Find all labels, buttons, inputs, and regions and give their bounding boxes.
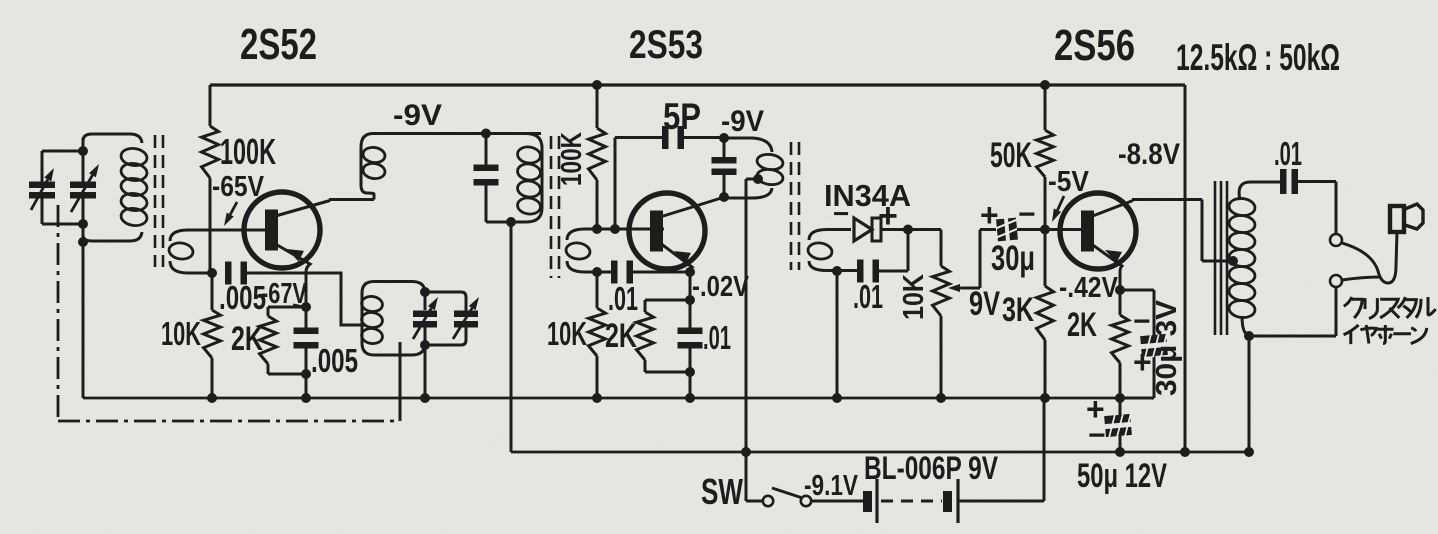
transformer T1 core (dashed) <box>155 135 163 267</box>
node: 2K bottom at emitter <box>685 367 695 377</box>
node: tank at ground bus <box>420 393 430 403</box>
arrow: VC1 adjustment arrow <box>31 168 54 210</box>
label katakana iyahoon (earphone) <box>1344 325 1427 344</box>
transformer T5 core <box>1215 181 1227 335</box>
wire: top bus left drop to R 100K <box>209 85 212 126</box>
wire: 100K bottom to base-coil bottom node <box>209 178 212 273</box>
svg-text:2K: 2K <box>231 320 263 358</box>
wire: Q3 emitter lead <box>1090 243 1122 290</box>
node: top bus junction to 2S53 bias <box>592 80 602 90</box>
svg-text:2S53: 2S53 <box>629 23 703 67</box>
wire: lower jack to T5 bottom <box>1335 287 1338 336</box>
wire: battery positive to ground bus <box>958 398 1044 501</box>
transistor Q3 2S56 <box>1060 193 1136 269</box>
node: T2 cap top junction <box>481 129 491 139</box>
coil T2 secondary (to Q2 stage supply) <box>486 134 542 223</box>
capacitor .005 (Q1 emitter bypass) <box>294 328 319 349</box>
node: top bus junction to 2S56 bias <box>1040 80 1050 90</box>
svg-text:2K: 2K <box>1067 306 1097 344</box>
wire: Q3 collector lead <box>1090 200 1233 262</box>
label -.42V <box>1059 272 1119 304</box>
wire: .01 to jack <box>1296 182 1336 235</box>
node: 3K at ground bus <box>1040 393 1050 403</box>
variable capacitor VC3 (regen) <box>413 311 437 328</box>
label .01 (detector) <box>853 278 883 315</box>
coil L2 tickler (loops) <box>361 282 425 356</box>
wire: 5P wire <box>615 136 724 139</box>
resistor R 2K (Q1 emitter) <box>260 316 277 364</box>
capacitor 30uF coupling (electrolytic) <box>995 218 1019 242</box>
capacitor (Q2 collector) <box>712 157 737 175</box>
wire: collector cap leads <box>723 138 726 197</box>
svg-text:.005: .005 <box>219 279 266 316</box>
node: VC1 rail bottom at L1 <box>78 219 88 229</box>
capacitor 30uF 3V (Q3 emitter bypass) <box>1140 333 1169 358</box>
wire: 30u 3V branch <box>1120 290 1154 398</box>
crystal earphone icon <box>1390 204 1423 232</box>
variable capacitor VC2 (main tuning) <box>70 182 96 199</box>
node: emitter network bottom <box>301 369 311 379</box>
shield enclosure (dash-dot) <box>58 205 397 421</box>
label 2S56 <box>1054 21 1135 70</box>
label .01 (output) <box>1274 135 1302 172</box>
svg-text:50μ 12V: 50μ 12V <box>1077 457 1167 495</box>
label 50K <box>990 136 1032 175</box>
wire: Q2 emitter chain <box>689 272 692 398</box>
svg-text:12.5kΩ : 50kΩ: 12.5kΩ : 50kΩ <box>1176 37 1340 78</box>
wire: Q1 emitter lead <box>272 242 310 307</box>
label - (diode) <box>833 198 849 229</box>
label 2S52 <box>240 20 317 69</box>
variable capacitor VC4 (regen) <box>454 311 478 328</box>
label 100K <box>220 131 276 172</box>
svg-text:.01: .01 <box>853 278 883 315</box>
svg-text:100K: 100K <box>556 132 588 186</box>
svg-text:BL-006P 9V: BL-006P 9V <box>864 450 999 486</box>
label + (diode) <box>878 197 898 235</box>
label 50u 12V <box>1077 457 1167 495</box>
wire: VC4 branch <box>425 292 466 345</box>
label 30u <box>991 239 1035 278</box>
wire: emitter cap bottom <box>305 346 308 398</box>
coil T4 secondary (detector) <box>807 230 859 271</box>
svg-text:.01: .01 <box>703 319 731 356</box>
capacitor 5P <box>662 126 684 149</box>
wire: T2 cap leads <box>485 134 488 223</box>
jack terminal upper <box>1330 234 1342 246</box>
transformer T4 core (dashed) <box>791 142 799 270</box>
svg-text:.005: .005 <box>311 342 358 379</box>
arrow: VC2 adjustment arrow <box>71 164 99 212</box>
svg-text:-8.8V: -8.8V <box>1118 138 1180 171</box>
node: Q3 base node <box>1040 225 1050 235</box>
label - (30u) <box>1018 198 1036 231</box>
svg-text:30μ 3V: 30μ 3V <box>1151 299 1183 396</box>
wire: T5 bottom to -9V rail <box>1248 336 1251 452</box>
wire: Q1 collector lead <box>272 200 374 218</box>
label -.02V <box>692 271 750 303</box>
svg-text:3K: 3K <box>1002 291 1034 329</box>
resistor R 100K (2S53 base bias) <box>589 128 606 180</box>
label -9V (T2 primary) <box>393 99 442 132</box>
switch SW blade <box>772 488 801 498</box>
wire: emitter cap top <box>305 307 308 330</box>
svg-text:-9V: -9V <box>721 105 764 138</box>
label katakana kurisutaru (crystal) <box>1344 297 1436 319</box>
label -65V <box>212 171 265 203</box>
coil L1 secondary (Q1 base coil) <box>168 230 266 273</box>
label 100K vertical (Q2 bias) <box>556 132 588 186</box>
wire: L3 tap to -9V rail and switch <box>746 179 758 501</box>
wire: VC1 branch bottom rail <box>42 223 83 226</box>
node: L3 tap <box>753 174 763 184</box>
transistor Q2 2S53 <box>629 193 705 269</box>
node: detector output <box>903 225 913 235</box>
wire: top bus right drop to -9V rail <box>1184 85 1187 452</box>
node: Q2 emitter at ground bus <box>685 393 695 403</box>
node: detector coil at ground bus <box>832 393 842 403</box>
wire: 10K bottom to ground bus <box>211 358 214 398</box>
wire: 5P branch vertical <box>614 138 617 230</box>
wire: earphone cord lower <box>1342 277 1381 280</box>
svg-text:10K: 10K <box>547 315 587 352</box>
switch SW pole <box>763 496 773 506</box>
label SW <box>701 471 743 512</box>
label 5P <box>663 96 701 137</box>
arrow: VC3 adjustment arrow <box>413 297 438 339</box>
node: tickler bottom-right <box>420 340 430 350</box>
wire: tank down to ground bus <box>424 345 427 398</box>
wire: 30u to Q3 base <box>1017 228 1081 231</box>
svg-text:+: + <box>1133 344 1152 380</box>
svg-text:−: − <box>1133 305 1151 338</box>
wire: pot bottom to ground <box>940 316 943 398</box>
coil L3 (Q2 collector, tapped) <box>724 138 784 198</box>
label 9V <box>969 285 1000 323</box>
label 3K <box>1002 291 1034 329</box>
node: Q2 emitter node <box>685 267 695 277</box>
svg-text:-.42V: -.42V <box>1059 272 1119 304</box>
switch SW throw <box>801 496 811 506</box>
wire: 50K leads <box>1044 85 1047 230</box>
capacitor .01 (Q2 base-emitter) <box>611 261 633 284</box>
label -67V <box>261 278 307 310</box>
label 2K <box>231 320 263 358</box>
label BL-006P 9V <box>864 450 999 486</box>
label 2K (Q3) <box>1067 306 1097 344</box>
arrow: VC4 adjustment arrow <box>453 297 479 339</box>
wire: earphone cord upper <box>1342 232 1397 283</box>
wire: 2K parallel bottom <box>268 364 306 374</box>
wire: L1 left edge lower <box>82 197 85 398</box>
node: top-bus drop at -9V rail <box>1180 447 1190 457</box>
coil L1 antenna (loops) <box>83 134 148 241</box>
arrow: pot wiper <box>948 230 996 293</box>
diode D1 IN34A <box>854 218 908 241</box>
svg-text:−: − <box>833 198 849 229</box>
svg-text:.01: .01 <box>608 280 638 317</box>
svg-text:+: + <box>980 197 999 233</box>
node: junction 100K/base-coil bottom <box>207 268 217 278</box>
resistor R 10K (Q2) <box>589 308 606 356</box>
node: Q2 collector junction <box>719 192 729 202</box>
node: T2 bottom junction to -9V rail <box>506 217 516 227</box>
node: 5P/coil top junction <box>719 133 729 143</box>
wire: cap to emitter line <box>631 271 690 274</box>
wire: top -9V supply bus <box>210 83 1185 86</box>
label 30u 3V vertical <box>1151 299 1183 396</box>
wire: coil bottom to ground <box>836 271 839 398</box>
label -8.8V <box>1118 138 1180 171</box>
coil T2 primary (Q1 collector) <box>361 134 541 200</box>
svg-text:50K: 50K <box>990 136 1032 175</box>
svg-text:-.02V: -.02V <box>692 271 750 303</box>
arrow: Q2 emitter PNP arrow <box>674 251 691 264</box>
svg-text:2S52: 2S52 <box>240 20 317 69</box>
svg-text:−: − <box>1088 419 1106 452</box>
label .005 (base coupling cap) <box>219 279 266 316</box>
node: T5 at -9V rail <box>1244 447 1254 457</box>
wire: Q2 emitter lead <box>660 243 692 272</box>
arrow: Q1 emitter PNP arrow <box>287 249 304 262</box>
capacitor .005 (Q1 base, series) <box>225 262 247 285</box>
label 10K (Q2) <box>547 315 587 352</box>
node: 50u at -9V rail <box>1115 447 1125 457</box>
node: 10K at ground bus <box>207 393 217 403</box>
svg-text:2S56: 2S56 <box>1054 21 1135 70</box>
svg-text:10K: 10K <box>161 315 201 352</box>
node: Q2 base node <box>592 224 602 234</box>
node: 10K at ground bus <box>592 393 602 403</box>
wire: tickler centre tap to shield <box>399 342 402 421</box>
wire: base-coil bottom to tickler <box>244 273 366 325</box>
label -9.1V <box>804 470 859 502</box>
resistor R 100K (2S52 base bias) <box>202 126 219 178</box>
resistor R 2K (Q2 emitter) <box>637 312 654 360</box>
node: Q3 emitter node <box>1115 285 1125 295</box>
label + (50u) <box>1086 391 1105 427</box>
label -5V <box>1048 166 1090 198</box>
potentiometer VR 10K (volume) <box>933 266 950 316</box>
label .01 (Q2 base) <box>608 280 638 317</box>
wire: -9V rail <box>511 451 1249 454</box>
wire: VC1 branch top rail <box>42 150 83 153</box>
label + (30u 3V) <box>1133 344 1152 380</box>
wire: detector output to volume pot <box>908 230 941 267</box>
wire: switch feed <box>746 500 762 503</box>
svg-text:SW: SW <box>701 471 743 512</box>
wire: 3K leads <box>1044 230 1047 399</box>
coil T3 secondary (Q2 base coil) <box>565 229 664 272</box>
label - (30u 3V) <box>1133 305 1151 338</box>
node: emitter chain at ground bus <box>301 393 311 403</box>
capacitor 50uF 12V (electrolytic) <box>1104 413 1133 438</box>
resistor R 10K (Q1 emitter-ground) <box>204 310 221 358</box>
svg-text:.01: .01 <box>1274 135 1302 172</box>
wire: 100K bottom to base node <box>596 180 599 229</box>
capacitor .01 (Q2 emitter bypass) <box>678 328 703 349</box>
arrow: -65V points to base wire <box>224 202 237 226</box>
label 12.5k ratio <box>1176 37 1340 78</box>
arrow: -67V tick <box>293 305 303 307</box>
node: L1 bottom corner <box>78 237 88 247</box>
svg-text:30μ: 30μ <box>991 239 1035 278</box>
wire: 10K top lead <box>211 273 214 310</box>
svg-text:-9.1V: -9.1V <box>804 470 859 502</box>
label + (30u) <box>980 197 999 233</box>
label 10K <box>161 315 201 352</box>
node: T5 bottom junction <box>1244 331 1254 341</box>
wire: 100K top lead <box>596 85 599 128</box>
arrow: Q3 emitter PNP arrow <box>1105 250 1122 263</box>
wire: switch to battery <box>812 500 864 503</box>
wire: 10K leads <box>596 272 599 398</box>
node: coil bottom / 10K junction <box>592 267 602 277</box>
wire: L1 left edge upper <box>82 138 85 183</box>
svg-text:9V: 9V <box>969 285 1000 323</box>
battery BT1 BL-006P 9V <box>863 479 958 523</box>
node: Q1 emitter node -67V <box>301 302 311 312</box>
svg-text:−: − <box>1018 198 1036 231</box>
resistor R 50K (Q3 bias) <box>1037 130 1054 177</box>
label IN34A <box>824 178 911 213</box>
node: VC1 rail top at L1 <box>78 146 88 156</box>
wire: 2K parallel top <box>268 307 306 316</box>
wire: 2K parallel (Q2) <box>645 300 690 372</box>
node: coil bottom junction <box>832 266 842 276</box>
wire: Q1 base lead <box>188 229 266 232</box>
resistor R 2K (Q3 emitter) <box>1112 315 1129 363</box>
node: 5P branch at base node <box>610 224 620 234</box>
wire: VC1 branch left <box>41 151 44 224</box>
wire: ground/positive bus <box>83 397 1120 400</box>
jack terminal lower <box>1330 275 1342 287</box>
svg-text:-9V: -9V <box>393 99 442 132</box>
label .01 (Q2 emitter) <box>703 319 731 356</box>
wire: Q3 emitter chain <box>1119 290 1122 398</box>
svg-text:5P: 5P <box>663 96 701 137</box>
label .005 (emitter bypass) <box>311 342 358 379</box>
node: pot at ground bus <box>936 393 946 403</box>
wire: T2 bottom to -9V rail <box>510 222 513 452</box>
resistor R 3K (Q3 base-ground) <box>1037 286 1054 340</box>
capacitor (T2 resonance) <box>474 165 499 186</box>
label 2S53 <box>629 23 703 67</box>
transistor Q1 2S52 <box>244 192 320 268</box>
variable capacitor VC1 (antenna trimmer) <box>29 182 55 199</box>
capacitor .01 (detector RF bypass) <box>857 260 879 283</box>
node: tickler top-right <box>420 287 430 297</box>
label -9V (Q2 collector) <box>721 105 764 138</box>
wire: bypass cap to output node <box>877 229 908 271</box>
svg-text:10K: 10K <box>898 274 930 320</box>
wire: Q2 collector lead <box>660 198 723 218</box>
capacitor .01 (tone) <box>1280 169 1298 194</box>
label 10K vertical (volume) <box>898 274 930 320</box>
node: 2K top at emitter <box>685 295 695 305</box>
arrow: -5V points to base <box>1052 196 1064 222</box>
label - (50u) <box>1088 419 1106 452</box>
node: T5 tap at coil <box>1228 256 1238 266</box>
coil T5 autotransformer <box>1228 182 1336 336</box>
svg-text:2K: 2K <box>605 317 637 355</box>
transformer T3 core (dashed) <box>551 136 559 278</box>
svg-text:100K: 100K <box>220 131 276 172</box>
label 2K (Q2) <box>605 317 637 355</box>
node: tap wire at -9V rail <box>741 447 751 457</box>
node: Q3 emitter at ground bus <box>1115 393 1125 403</box>
wire: 50u cap leads <box>1119 398 1122 452</box>
